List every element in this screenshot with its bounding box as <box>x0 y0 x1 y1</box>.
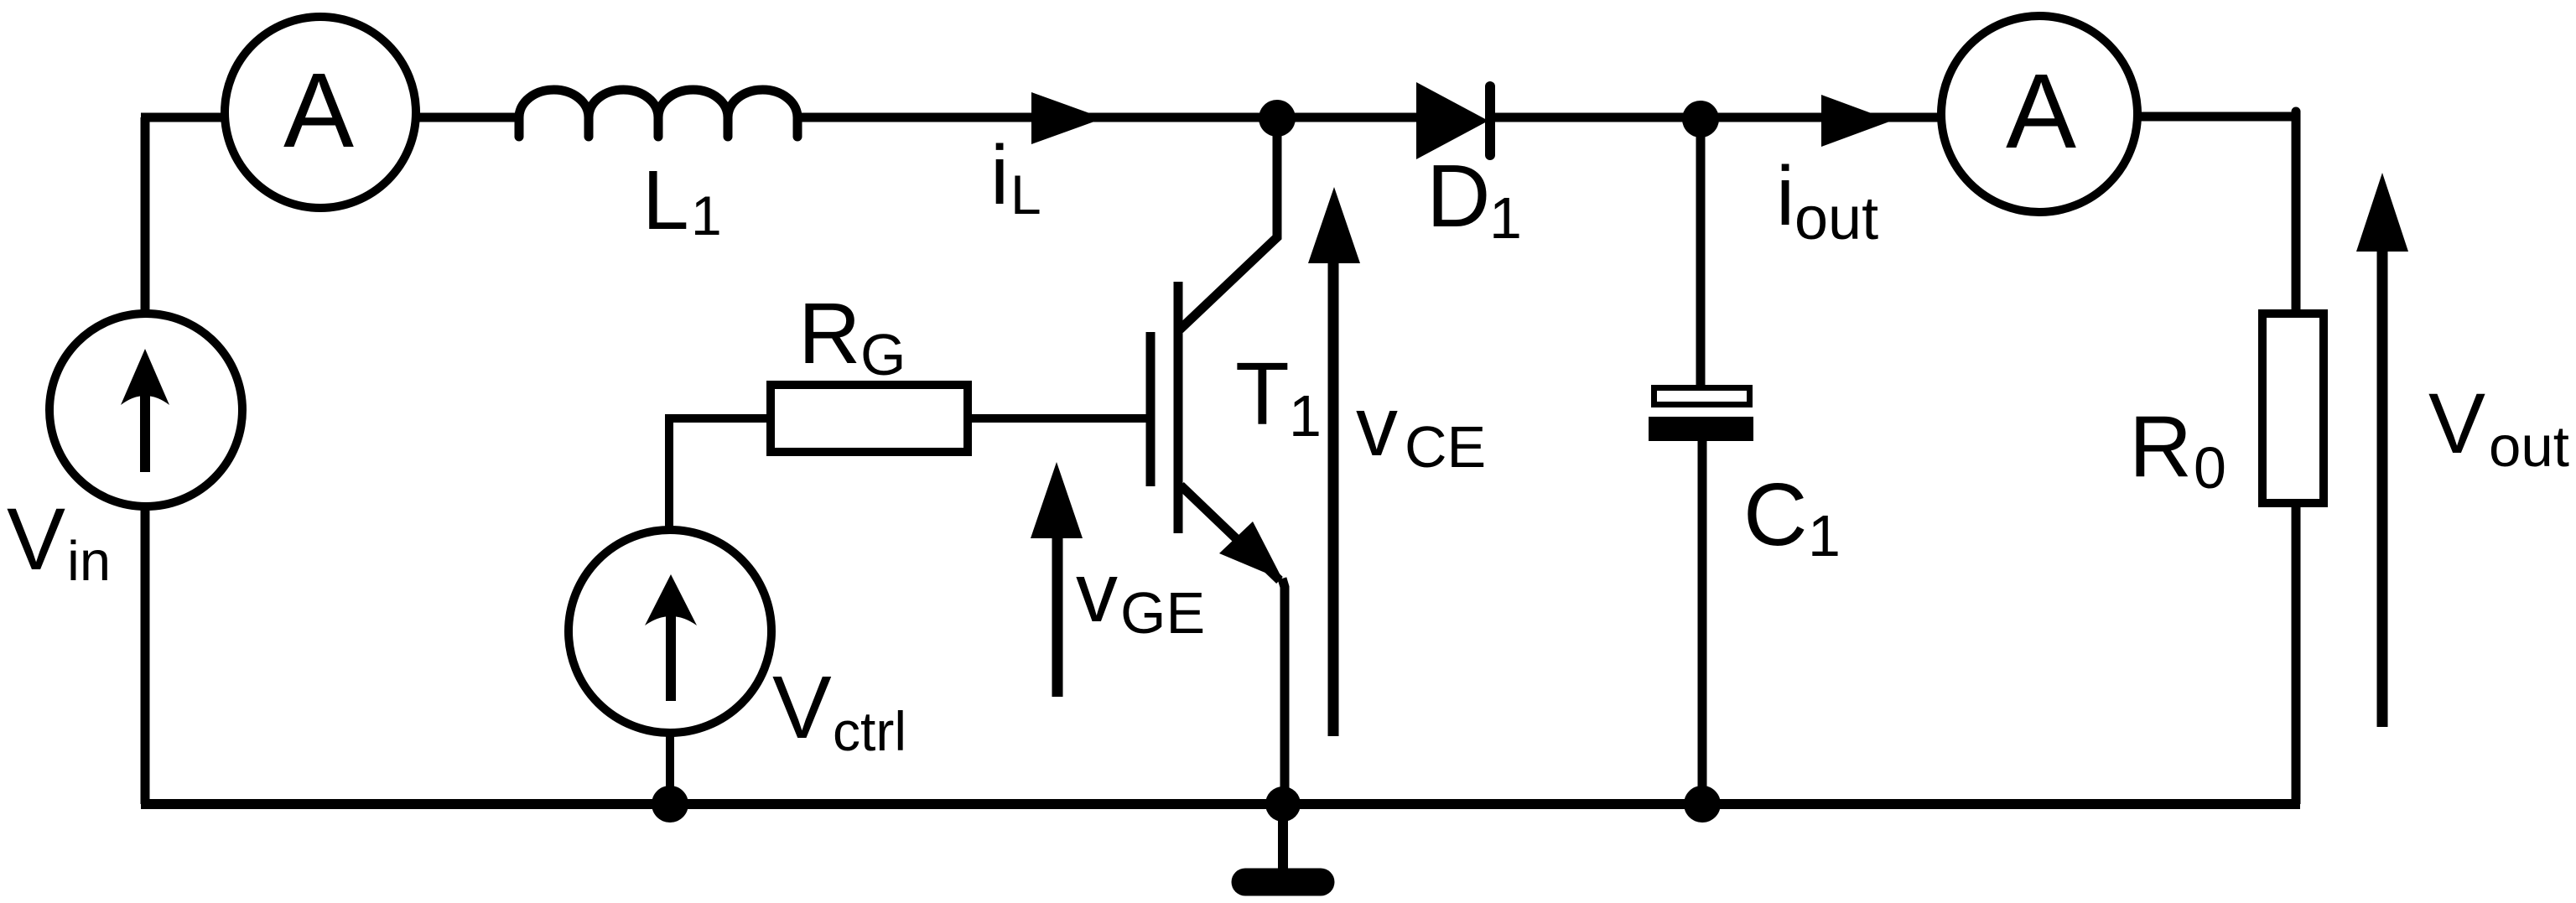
svg-text:in: in <box>67 530 111 593</box>
svg-text:out: out <box>2489 414 2569 479</box>
svg-text:A: A <box>2006 52 2076 170</box>
svg-text:L: L <box>642 153 689 247</box>
wire diode to ammeter A2 <box>1495 113 1940 122</box>
svg-text:T: T <box>1235 345 1290 444</box>
wire right vertical to R0 <box>2292 112 2301 314</box>
capacitor C1 top plate <box>1654 388 1750 405</box>
source Vctrl arrow <box>666 612 676 701</box>
svg-text:C: C <box>1743 465 1808 564</box>
wire left vertical top <box>141 117 150 314</box>
transistor T1 collector lead <box>1180 122 1277 330</box>
svg-text:i: i <box>990 128 1009 222</box>
inductor L1 <box>519 90 797 137</box>
node E (capacitor bottom junction dot) <box>1684 786 1721 823</box>
svg-text:L: L <box>1010 163 1041 226</box>
resistor R0 <box>2262 314 2324 503</box>
wire capacitor to bottom rail <box>1698 441 1707 804</box>
node B (capacitor junction dot) <box>1682 101 1719 138</box>
svg-text:1: 1 <box>1289 383 1322 449</box>
capacitor C1 bottom plate <box>1649 417 1753 441</box>
svg-text:A: A <box>283 51 354 169</box>
wire R0 to bottom rail <box>2292 503 2301 804</box>
diode D1 triangle <box>1416 82 1488 159</box>
arrow Vout <box>2377 247 2388 727</box>
svg-text:GE: GE <box>1120 580 1205 646</box>
svg-text:V: V <box>7 490 65 589</box>
svg-text:out: out <box>1794 185 1878 252</box>
source Vin arrow <box>140 390 150 472</box>
wire left vertical bottom <box>141 506 150 804</box>
wire gate node down to Vctrl <box>665 414 673 530</box>
node D (emitter/ground junction dot) <box>1265 786 1301 822</box>
wire bottom rail <box>141 799 2300 809</box>
wire top rail left segment <box>141 113 225 122</box>
wire ammeter A1 to inductor <box>416 113 521 122</box>
svg-text:1: 1 <box>691 184 722 247</box>
svg-text:R: R <box>2129 398 2192 496</box>
arrow iL <box>1031 92 1104 144</box>
svg-text:G: G <box>860 322 906 387</box>
svg-text:i: i <box>1776 149 1794 243</box>
ground stub <box>1278 804 1288 872</box>
svg-text:0: 0 <box>2194 435 2226 501</box>
diode D1 cathode bar <box>1485 86 1495 155</box>
svg-text:V: V <box>2428 376 2485 471</box>
wire emitter to bottom rail <box>1282 579 1285 804</box>
wire ammeter A2 to top-right corner <box>2137 112 2300 122</box>
arrow iout <box>1821 95 1892 147</box>
wire node B down to capacitor <box>1696 119 1706 387</box>
node A (collector junction dot) <box>1259 100 1296 137</box>
wire inductor to node A <box>797 113 1268 122</box>
wire RG to gate bar <box>972 414 1150 423</box>
ground bar <box>1245 869 1321 896</box>
svg-text:CE: CE <box>1405 414 1486 480</box>
svg-text:V: V <box>772 658 832 757</box>
node C (Vctrl bottom junction dot) <box>652 786 688 823</box>
resistor RG <box>771 385 968 452</box>
svg-text:1: 1 <box>1808 503 1841 568</box>
wire Vctrl to bottom rail <box>666 732 674 804</box>
transistor T1 body bar <box>1174 282 1183 533</box>
svg-text:ctrl: ctrl <box>833 700 906 762</box>
transistor T1 emitter lead <box>1181 485 1280 580</box>
arrow vCE <box>1328 260 1339 736</box>
svg-text:v: v <box>1356 380 1398 474</box>
ammeter A1 circle <box>225 17 416 208</box>
arrow vGE <box>1052 535 1063 697</box>
ammeter A2 circle <box>1941 16 2137 212</box>
transistor T1 gate bar <box>1146 332 1156 486</box>
svg-text:1: 1 <box>1489 185 1522 251</box>
source Vctrl circle <box>569 530 771 733</box>
transistor T1 emitter arrowhead <box>1219 522 1283 580</box>
svg-text:R: R <box>798 285 860 381</box>
wire node A to diode <box>1277 113 1419 122</box>
svg-text:v: v <box>1076 546 1118 640</box>
svg-text:D: D <box>1426 147 1491 246</box>
source Vin circle <box>49 314 242 506</box>
wire gate node to RG <box>665 414 768 423</box>
